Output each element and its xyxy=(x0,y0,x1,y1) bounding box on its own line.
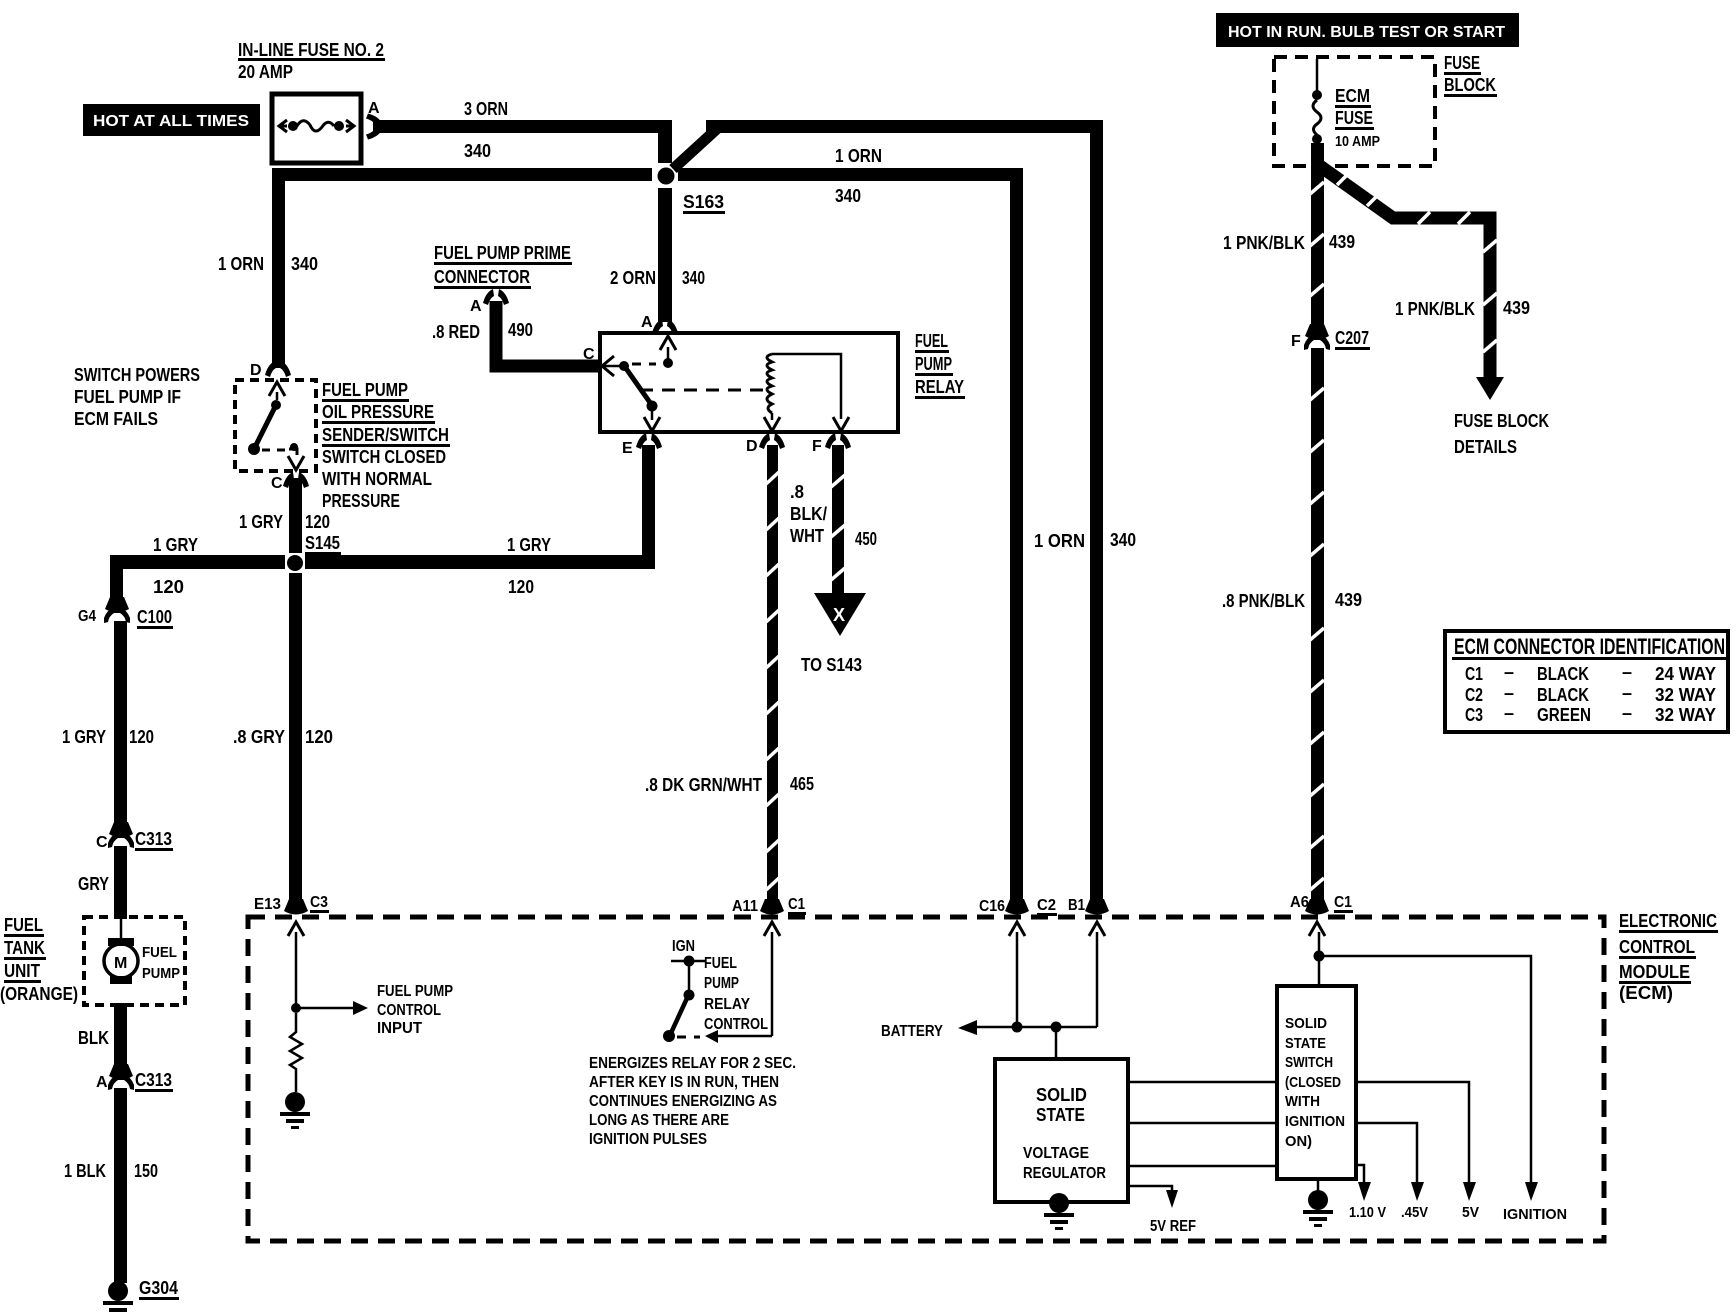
ground (E13 circuit) xyxy=(280,1092,310,1129)
svg-text:5V REF: 5V REF xyxy=(1150,1218,1196,1235)
solid state voltage regulator box xyxy=(995,1059,1128,1202)
svg-text:STATE: STATE xyxy=(1036,1105,1085,1125)
regulator output lines to switch xyxy=(1128,1081,1277,1084)
wire 1 ORN 340 right drop to B1 xyxy=(1090,120,1103,906)
svg-text:X: X xyxy=(833,605,845,625)
relay coil drive dashes xyxy=(640,389,764,392)
wire 1 PNK/BLK 439 fuse to C207 xyxy=(1311,143,1324,329)
svg-text:GRY: GRY xyxy=(78,874,109,894)
fuse F2 box xyxy=(272,94,361,163)
switch fixed contact dashes to pin C xyxy=(262,449,288,452)
svg-text:RELAY: RELAY xyxy=(915,377,964,397)
fuse F2 element xyxy=(279,120,287,132)
svg-text:FUSE BLOCK: FUSE BLOCK xyxy=(1454,411,1549,431)
svg-text:IGNITION PULSES: IGNITION PULSES xyxy=(589,1131,707,1148)
svg-text:C3: C3 xyxy=(310,894,328,911)
ECM connector identification table xyxy=(1445,631,1728,732)
svg-text:10 AMP: 10 AMP xyxy=(1335,133,1380,150)
svg-text:GREEN: GREEN xyxy=(1537,705,1591,725)
relay coil xyxy=(767,354,772,413)
svg-text:150: 150 xyxy=(134,1161,158,1181)
svg-text:ON): ON) xyxy=(1285,1133,1312,1150)
svg-text:FUEL: FUEL xyxy=(142,944,177,961)
svg-text:HOT IN RUN. BULB TEST OR START: HOT IN RUN. BULB TEST OR START xyxy=(1228,24,1505,41)
svg-text:1 GRY: 1 GRY xyxy=(153,535,198,555)
IGNITION output xyxy=(1525,1182,1538,1201)
svg-text:C313: C313 xyxy=(135,1070,172,1090)
svg-text:.8: .8 xyxy=(790,482,804,502)
svg-text:ECM: ECM xyxy=(1335,86,1370,106)
svg-text:439: 439 xyxy=(1329,232,1355,252)
node S163 xyxy=(658,168,675,185)
battery feed lines (C16, B1) xyxy=(1016,932,1019,1027)
svg-text:IGNITION: IGNITION xyxy=(1503,1206,1567,1223)
svg-text:BLK/: BLK/ xyxy=(790,504,827,524)
svg-text:MODULE: MODULE xyxy=(1619,962,1690,982)
svg-text:.8 GRY: .8 GRY xyxy=(233,727,285,747)
svg-text:IGNITION: IGNITION xyxy=(1285,1113,1345,1130)
svg-text:1 ORN: 1 ORN xyxy=(218,254,264,274)
svg-text:FUEL PUMP: FUEL PUMP xyxy=(322,380,408,400)
svg-text:20 AMP: 20 AMP xyxy=(238,62,293,82)
svg-text:CONTROL: CONTROL xyxy=(1619,937,1695,957)
svg-text:OIL PRESSURE: OIL PRESSURE xyxy=(322,402,434,422)
svg-text:S163: S163 xyxy=(683,192,724,212)
wire 340 horizontal run y175 xyxy=(272,168,652,181)
svg-text:C100: C100 xyxy=(137,607,172,627)
svg-text:(CLOSED: (CLOSED xyxy=(1285,1074,1341,1091)
svg-text:DETAILS: DETAILS xyxy=(1454,437,1517,457)
svg-text:–: – xyxy=(1504,703,1514,723)
svg-text:PRESSURE: PRESSURE xyxy=(322,491,400,511)
wire branch to fuse block details xyxy=(1320,166,1490,380)
svg-text:.45V: .45V xyxy=(1401,1204,1428,1221)
svg-text:.8 PNK/BLK: .8 PNK/BLK xyxy=(1222,591,1305,611)
svg-text:120: 120 xyxy=(305,727,333,747)
svg-text:PUMP: PUMP xyxy=(704,975,739,992)
svg-text:CONTINUES ENERGIZING AS: CONTINUES ENERGIZING AS xyxy=(589,1093,777,1110)
svg-text:PUMP: PUMP xyxy=(915,354,952,374)
svg-text:–: – xyxy=(1504,662,1514,682)
svg-text:C: C xyxy=(96,834,108,851)
solid state switch box xyxy=(1277,986,1356,1179)
svg-text:340: 340 xyxy=(464,141,491,161)
svg-text:S145: S145 xyxy=(305,533,340,553)
svg-text:ELECTRONIC: ELECTRONIC xyxy=(1619,911,1717,931)
svg-text:TO S143: TO S143 xyxy=(801,655,862,675)
svg-text:SENDER/SWITCH: SENDER/SWITCH xyxy=(322,425,449,445)
svg-text:24 WAY: 24 WAY xyxy=(1655,664,1716,684)
svg-text:WITH NORMAL: WITH NORMAL xyxy=(322,469,432,489)
svg-text:439: 439 xyxy=(1503,298,1530,318)
svg-text:C313: C313 xyxy=(135,829,172,849)
svg-text:ECM CONNECTOR IDENTIFICATION: ECM CONNECTOR IDENTIFICATION xyxy=(1454,634,1725,659)
svg-text:ENERGIZES RELAY FOR 2 SEC.: ENERGIZES RELAY FOR 2 SEC. xyxy=(589,1055,796,1072)
svg-text:BLACK: BLACK xyxy=(1537,664,1589,684)
wire BLK motor to C313 A xyxy=(114,1003,127,1073)
arrow to S143 with X xyxy=(814,593,866,636)
fuel pump motor M xyxy=(120,917,123,940)
svg-text:C2: C2 xyxy=(1465,685,1483,705)
wire .8 PNK/BLK 439 C207 to A6 xyxy=(1311,348,1324,903)
svg-text:F: F xyxy=(1291,333,1301,350)
svg-text:FUSE: FUSE xyxy=(1335,108,1373,128)
fuel pump relay control circuit (A11) xyxy=(771,932,774,1036)
.45V output xyxy=(1356,1123,1417,1182)
fuel pump relay box xyxy=(600,333,898,432)
svg-text:BLACK: BLACK xyxy=(1537,685,1589,705)
svg-text:M: M xyxy=(114,955,127,972)
wire .8 BLK/WHT 450 relay F to S143 arrow xyxy=(832,445,844,595)
svg-text:F: F xyxy=(812,438,822,455)
svg-text:C207: C207 xyxy=(1335,328,1369,348)
switch contact arrow (pin D inside) xyxy=(269,382,285,396)
black banner HOT IN RUN BULB TEST OR START xyxy=(1216,13,1519,47)
svg-text:SOLID: SOLID xyxy=(1285,1015,1327,1032)
svg-text:120: 120 xyxy=(305,512,330,532)
svg-text:CONTROL: CONTROL xyxy=(704,1016,768,1033)
ground (switch box) xyxy=(1317,1179,1320,1192)
svg-text:A: A xyxy=(641,314,653,331)
oil pressure sender/switch dashed box xyxy=(235,380,316,471)
svg-text:340: 340 xyxy=(1110,530,1136,550)
svg-text:B1: B1 xyxy=(1068,897,1085,914)
svg-text:3 ORN: 3 ORN xyxy=(464,99,508,119)
svg-text:C3: C3 xyxy=(1465,705,1483,725)
fuel pump control input circuit (E13) xyxy=(295,932,298,1005)
relay coil top wire to pin F xyxy=(772,354,841,419)
svg-text:340: 340 xyxy=(291,254,318,274)
svg-text:FUEL: FUEL xyxy=(704,955,737,972)
svg-text:465: 465 xyxy=(790,774,814,794)
svg-text:32 WAY: 32 WAY xyxy=(1655,705,1716,725)
svg-text:C1: C1 xyxy=(788,896,805,913)
svg-text:340: 340 xyxy=(682,268,705,288)
svg-text:C16: C16 xyxy=(979,898,1005,915)
wire .8 DK GRN/WHT 465 relay D to A11 xyxy=(767,445,778,903)
svg-text:WHT: WHT xyxy=(790,526,824,546)
svg-text:AFTER KEY IS IN RUN, THEN: AFTER KEY IS IN RUN, THEN xyxy=(589,1074,779,1091)
5V REF output xyxy=(1128,1186,1172,1190)
svg-text:–: – xyxy=(1622,683,1632,703)
wire 1 GRY 120 C100 to C313 xyxy=(114,621,127,831)
wire 1 BLK 150 to G304 xyxy=(114,1088,127,1283)
svg-text:BLK: BLK xyxy=(78,1028,109,1048)
svg-text:BATTERY: BATTERY xyxy=(881,1023,943,1040)
wire GRY to fuel tank unit xyxy=(114,846,127,919)
svg-text:FUEL PUMP PRIME: FUEL PUMP PRIME xyxy=(434,243,571,263)
wire A6 internal node xyxy=(1318,932,1321,986)
svg-text:SOLID: SOLID xyxy=(1036,1085,1087,1105)
svg-text:1 GRY: 1 GRY xyxy=(62,727,106,747)
ECM dashed box xyxy=(248,917,1604,1241)
wire 1 GRY 120 horizontal run xyxy=(110,555,285,569)
svg-text:490: 490 xyxy=(508,320,533,340)
svg-text:(ORANGE): (ORANGE) xyxy=(0,984,78,1004)
svg-text:A11: A11 xyxy=(732,898,758,915)
svg-text:BLOCK: BLOCK xyxy=(1444,75,1496,95)
svg-text:CONTROL: CONTROL xyxy=(377,1002,441,1019)
relay coil bottom to pin D xyxy=(771,413,774,420)
ground (voltage regulator) xyxy=(1044,1193,1074,1230)
wire 1 ORN 340 left drop to oil switch D xyxy=(272,168,285,368)
svg-text:C1: C1 xyxy=(1465,664,1483,684)
svg-text:120: 120 xyxy=(129,727,154,747)
svg-text:FUEL: FUEL xyxy=(915,331,948,351)
fuel tank unit dashed box xyxy=(84,917,185,1005)
svg-text:HOT AT ALL TIMES: HOT AT ALL TIMES xyxy=(93,113,249,130)
svg-text:1 PNK/BLK: 1 PNK/BLK xyxy=(1223,233,1305,253)
svg-text:32 WAY: 32 WAY xyxy=(1655,685,1716,705)
svg-text:IGN: IGN xyxy=(672,938,695,955)
svg-text:G4: G4 xyxy=(78,608,96,625)
svg-text:FUSE: FUSE xyxy=(1444,53,1480,73)
svg-text:1 GRY: 1 GRY xyxy=(507,535,551,555)
svg-text:–: – xyxy=(1504,683,1514,703)
svg-text:TANK: TANK xyxy=(4,938,45,958)
wire drop to S163 xyxy=(658,126,672,163)
wire 3 ORN 340 fuse to B1 corner xyxy=(373,120,672,133)
svg-text:LONG AS THERE ARE: LONG AS THERE ARE xyxy=(589,1112,729,1129)
svg-text:E13: E13 xyxy=(254,896,281,913)
svg-text:STATE: STATE xyxy=(1285,1035,1326,1052)
svg-text:RELAY: RELAY xyxy=(704,996,750,1013)
svg-text:1 GRY: 1 GRY xyxy=(239,512,283,532)
wire 1 ORN 340 right drop to C16 xyxy=(1010,168,1023,906)
svg-text:120: 120 xyxy=(508,577,534,597)
5V output xyxy=(1356,1082,1469,1182)
wire drop to C100 xyxy=(110,555,123,607)
svg-text:FUEL PUMP: FUEL PUMP xyxy=(377,983,453,1000)
wire .8 RED 490 prime connector to relay C xyxy=(496,301,600,366)
svg-text:C: C xyxy=(271,475,283,492)
svg-text:A: A xyxy=(96,1074,108,1091)
svg-text:D: D xyxy=(746,438,758,455)
wire diagonal S163 to upper run xyxy=(673,127,719,169)
svg-text:SWITCH CLOSED: SWITCH CLOSED xyxy=(322,447,446,467)
svg-text:.8 RED: .8 RED xyxy=(432,322,480,342)
svg-text:1 BLK: 1 BLK xyxy=(64,1161,106,1181)
fuse block dashed box xyxy=(1274,57,1435,166)
svg-text:IN-LINE FUSE NO. 2: IN-LINE FUSE NO. 2 xyxy=(238,40,384,60)
svg-text:INPUT: INPUT xyxy=(377,1020,422,1037)
svg-text:SWITCH POWERS: SWITCH POWERS xyxy=(74,365,200,385)
ground G304 xyxy=(103,1281,133,1312)
svg-text:E: E xyxy=(622,440,633,457)
wire 1 GRY 120 switch C to S145 xyxy=(289,478,302,553)
svg-text:1 PNK/BLK: 1 PNK/BLK xyxy=(1395,299,1475,319)
svg-text:A: A xyxy=(470,298,482,315)
svg-text:–: – xyxy=(1622,703,1632,723)
svg-text:450: 450 xyxy=(855,529,877,549)
resistor (pull-down) xyxy=(290,1013,302,1092)
svg-text:–: – xyxy=(1622,662,1632,682)
ECM fuse element xyxy=(1316,59,1319,92)
svg-text:1 ORN: 1 ORN xyxy=(1034,531,1085,551)
svg-text:SWITCH: SWITCH xyxy=(1285,1054,1333,1071)
svg-text:.8 DK GRN/WHT: .8 DK GRN/WHT xyxy=(645,775,762,795)
switch arm xyxy=(254,405,276,449)
svg-text:120: 120 xyxy=(153,577,184,597)
svg-text:C2: C2 xyxy=(1037,897,1056,914)
svg-text:(ECM): (ECM) xyxy=(1619,983,1673,1003)
svg-text:FUEL: FUEL xyxy=(4,915,43,935)
svg-text:340: 340 xyxy=(835,186,861,206)
wire E to S145 run xyxy=(642,445,655,569)
svg-text:C1: C1 xyxy=(1334,894,1352,911)
relay switch arm xyxy=(632,363,656,366)
svg-text:FUEL PUMP IF: FUEL PUMP IF xyxy=(74,387,181,407)
svg-text:WITH: WITH xyxy=(1285,1093,1320,1110)
svg-text:ECM FAILS: ECM FAILS xyxy=(74,409,158,429)
svg-text:C: C xyxy=(583,346,595,363)
wire .8 GRY S145 to E13 xyxy=(289,573,302,899)
svg-text:1.10 V: 1.10 V xyxy=(1349,1204,1386,1221)
svg-text:439: 439 xyxy=(1335,590,1362,610)
1.10V output xyxy=(1356,1165,1364,1182)
svg-text:D: D xyxy=(250,362,262,379)
wire 2 ORN S163 to relay A xyxy=(658,188,672,322)
svg-text:UNIT: UNIT xyxy=(4,961,40,981)
svg-text:G304: G304 xyxy=(139,1278,178,1298)
svg-text:2 ORN: 2 ORN xyxy=(610,268,656,288)
black banner HOT AT ALL TIMES xyxy=(83,104,260,136)
svg-text:VOLTAGE: VOLTAGE xyxy=(1023,1145,1089,1162)
svg-text:REGULATOR: REGULATOR xyxy=(1023,1165,1106,1182)
svg-text:CONNECTOR: CONNECTOR xyxy=(434,267,530,287)
svg-text:5V: 5V xyxy=(1462,1204,1479,1221)
svg-text:PUMP: PUMP xyxy=(142,965,180,982)
svg-text:1 ORN: 1 ORN xyxy=(835,146,882,166)
